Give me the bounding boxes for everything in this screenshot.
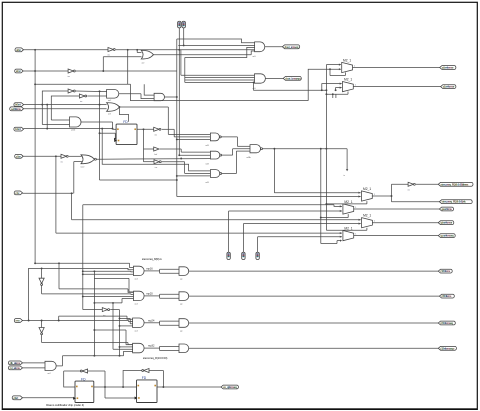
svg-text:r24rtkmseq: r24rtkmseq <box>440 321 453 325</box>
wire N1 in1 <box>168 133 210 135</box>
junction A2/x176 <box>176 96 178 98</box>
wire pin11 line <box>23 397 76 399</box>
svg-text:q0xrtkmse: q0xrtkmse <box>442 66 454 70</box>
top pin T1 <box>178 21 181 28</box>
svg-text:M2_1: M2_1 <box>363 214 371 218</box>
mux MA <box>343 204 354 214</box>
and-gate G1 <box>255 42 265 52</box>
output pin O4 <box>441 85 456 89</box>
label MC <box>344 227 352 231</box>
nand-gate N4 <box>250 145 262 153</box>
wire y57 line <box>185 47 255 57</box>
label R1 sub <box>135 278 138 280</box>
nand-gate N2 <box>210 151 221 159</box>
svg-text:mp24: mp24 <box>148 318 155 322</box>
junction y296/x82 <box>82 296 84 298</box>
wire FD2 Q <box>157 386 221 388</box>
feedback inverter FB1 <box>80 369 87 373</box>
wire G2 out <box>265 77 283 79</box>
wire y316 line <box>59 316 133 320</box>
junction x176/N3 <box>176 175 178 177</box>
junction y271/x82 <box>82 270 84 272</box>
wire x55 riser <box>55 156 57 233</box>
wire R1 split <box>144 269 179 273</box>
wire pin2 to inverter U3 <box>23 70 68 72</box>
wire x274 drop <box>273 149 275 193</box>
junction pin8/x58 <box>58 320 60 322</box>
wire N1 in3 <box>177 138 211 140</box>
wire x129 riser <box>129 278 134 292</box>
label M1 <box>343 58 351 62</box>
label N3 <box>206 182 209 184</box>
svg-text:qbxrtkmse: qbxrtkmse <box>440 221 452 225</box>
wire R4 out <box>189 347 439 349</box>
wire FDt C feed <box>100 133 117 140</box>
svg-text:q1xrtkmse: q1xrtkmse <box>443 85 455 89</box>
wire N1 out <box>221 137 250 146</box>
wire y263 line <box>35 263 133 267</box>
buffer gate R4b <box>179 344 189 353</box>
input pin P4 <box>10 107 24 111</box>
label R1b <box>180 278 182 280</box>
svg-text:buf: buf <box>155 154 158 156</box>
label R4 mp <box>148 344 155 348</box>
input pin P2 <box>15 69 24 73</box>
wire MT out <box>372 194 391 196</box>
wire y296 in3 <box>83 296 134 298</box>
junction bus/line84 <box>34 83 36 85</box>
svg-text:an4: an4 <box>135 303 138 305</box>
wire N2 out <box>222 149 250 155</box>
wire muxB in1 <box>72 219 361 221</box>
svg-text:FD: FD <box>123 120 128 124</box>
svg-text:Diseno codificador chip (coder: Diseno codificador chip (coder 4) <box>46 403 84 407</box>
svg-text:nd3: nd3 <box>206 182 209 184</box>
output pin O2 <box>283 76 301 80</box>
wire y325 branch <box>120 325 133 327</box>
junction MAsel/x320 <box>320 217 322 219</box>
output pin O13 <box>438 346 456 350</box>
svg-text:inv: inv <box>155 135 157 137</box>
wire R1 out <box>189 270 439 272</box>
wire y45 line <box>178 44 254 46</box>
label arrow net <box>344 174 346 177</box>
input pin P6 <box>15 154 24 158</box>
junction T2/y45 <box>183 44 185 46</box>
wire g2 in1 <box>181 74 255 76</box>
svg-text:pp: pp <box>180 303 182 305</box>
svg-text:FD: FD <box>142 376 147 380</box>
wire R2 out <box>189 295 440 297</box>
wire invBot feed <box>83 309 103 311</box>
and-gate AM <box>70 117 81 127</box>
junction U2 out branch <box>136 49 138 51</box>
mux M2 <box>343 82 354 92</box>
wire MB out <box>372 221 438 223</box>
svg-text:an2b: an2b <box>71 130 75 132</box>
junction x99/pin3 <box>99 104 101 106</box>
svg-text:an5: an5 <box>253 88 256 90</box>
and-gate R1 <box>134 266 145 275</box>
svg-text:an2: an2 <box>108 100 111 102</box>
svg-text:clk_akms: clk_akms <box>10 361 21 365</box>
svg-text:stercoreq_R(16:0:00): stercoreq_R(16:0:00) <box>143 356 168 360</box>
wire V2 riser <box>242 224 244 253</box>
wire MB sel <box>326 228 367 230</box>
label row1 head <box>142 257 163 261</box>
label R2 sub <box>135 303 138 305</box>
wire M2 out <box>353 84 440 86</box>
wire FD2 C feed <box>105 397 137 399</box>
wire FD1t Q out <box>137 128 154 130</box>
wire top pin T1 drop <box>178 28 180 156</box>
output pin O3 <box>440 66 456 70</box>
feedback inverter FB2 <box>142 369 149 373</box>
svg-text:mp32: mp32 <box>148 344 155 348</box>
wire y318 branch <box>120 318 133 323</box>
junction pin7/x71 <box>71 192 73 194</box>
wire G1 out <box>265 46 283 48</box>
input pin P11 <box>12 396 22 400</box>
junction N2in2 <box>178 154 180 156</box>
output pin O9 <box>438 234 455 238</box>
wire U2 out <box>116 49 255 51</box>
inverter U5 <box>79 94 86 103</box>
wire pin1 to inverter U2 <box>24 49 109 51</box>
junction y263/x35 <box>34 262 36 264</box>
inverter U6 <box>61 154 69 163</box>
inverter U4 <box>68 89 75 93</box>
mux MT <box>362 191 373 201</box>
wire V3 riser <box>257 237 259 253</box>
wire NOR out long <box>96 158 210 161</box>
or-gate ORB <box>107 103 120 112</box>
wire pin4 to ORB <box>24 108 107 110</box>
wire pin7 line <box>23 192 74 194</box>
svg-text:inv: inv <box>61 161 63 163</box>
junction invA tap <box>41 104 43 106</box>
junction x94/y302 <box>93 302 95 304</box>
label R3 sub <box>135 330 138 332</box>
svg-text:b0xrt: b0xrt <box>15 103 21 107</box>
input pin P10 <box>8 366 22 370</box>
inverter U8 <box>102 308 109 312</box>
svg-text:stercoreq_R(16:0:0)rtk: stercoreq_R(16:0:0)rtk <box>442 200 467 204</box>
junction y180/x176 <box>176 179 178 181</box>
svg-text:stercoreq_8(R)xx: stercoreq_8(R)xx <box>142 257 163 261</box>
svg-text:M2_1: M2_1 <box>343 58 351 62</box>
junction pin8/x28 <box>28 320 30 322</box>
nor-gate NOR1 <box>81 155 96 164</box>
wire pin3 to ORB <box>24 104 107 106</box>
svg-text:inv: inv <box>408 189 410 191</box>
wire pin8 up loop <box>29 268 42 320</box>
wire x71 riser <box>71 193 73 220</box>
inverter B3 <box>154 160 161 164</box>
label N2 <box>206 163 209 165</box>
label R2 mp <box>146 292 153 296</box>
wire riser x47 <box>46 105 48 129</box>
and-gate AB <box>45 361 56 370</box>
svg-text:an4: an4 <box>135 278 138 280</box>
junction y355/x94 <box>93 355 95 357</box>
wire D2 in <box>41 321 43 328</box>
label ORB <box>108 113 111 116</box>
junction y128 r1 <box>101 128 103 130</box>
svg-text:r20rtkms: r20rtkms <box>442 294 452 298</box>
label FD1t <box>123 120 128 124</box>
junction y69/x330 <box>329 68 331 70</box>
wire x163 riser <box>162 371 164 388</box>
wire top pin T2 drop <box>183 28 185 46</box>
wire mux M2 in2 <box>336 87 342 91</box>
label G2 <box>253 88 256 90</box>
output pin O14 <box>221 385 238 389</box>
wire muxB in2 <box>243 223 360 225</box>
output pin O11 <box>439 294 454 298</box>
junction Q1/x105 <box>104 386 106 388</box>
label AM <box>71 130 75 132</box>
svg-text:nor2: nor2 <box>81 165 85 168</box>
input pin P8 <box>14 319 22 323</box>
wire x326 long <box>325 90 327 230</box>
output pin O8 <box>438 221 454 225</box>
wire to buf2 <box>144 148 154 150</box>
svg-text:inv: inv <box>108 55 110 57</box>
wire R3 out <box>189 322 439 324</box>
wire U3 out <box>76 70 177 72</box>
wire U5 out to A1 <box>87 95 106 97</box>
inverter U7 <box>408 182 416 191</box>
input pin P7 <box>14 191 22 195</box>
label B2 <box>155 154 158 156</box>
label B3 <box>155 167 157 169</box>
wire invR out <box>416 183 438 185</box>
label N4 <box>247 157 251 159</box>
inverter down D1 <box>39 278 44 285</box>
wire y164 to N3 <box>102 129 210 171</box>
inverter U2 <box>108 48 116 57</box>
wire y271 in3 <box>83 270 134 273</box>
inverter U3 <box>68 69 76 78</box>
wire B3 to N3 <box>162 162 211 174</box>
svg-text:inv: inv <box>155 167 157 169</box>
caption bottom <box>46 403 84 407</box>
junction MTsel/x326 <box>325 203 327 205</box>
nand-gate N1 <box>210 133 221 141</box>
wire riser NOR in2 <box>74 162 82 194</box>
junction AM/y128 <box>112 128 114 130</box>
wire ORB to x168 down <box>167 107 169 134</box>
junction U3/OR1 riser <box>102 70 104 72</box>
svg-text:M2_1: M2_1 <box>344 200 352 204</box>
wire pin10 <box>23 367 46 369</box>
buffer B2 <box>154 147 159 151</box>
wire pin6 to inv <box>23 155 61 157</box>
svg-text:an2: an2 <box>48 373 51 375</box>
label R2b <box>180 303 182 305</box>
wire x59 riser <box>59 263 134 292</box>
wire D1 out <box>42 285 134 294</box>
wire y268 line <box>42 268 134 269</box>
wire U8 out <box>110 310 119 356</box>
label FD1 <box>81 377 86 381</box>
wire AB out <box>56 356 123 366</box>
junction y90/x335 <box>335 89 337 91</box>
junction x94/y330 <box>93 329 95 331</box>
wire x176 long vertical <box>176 39 178 197</box>
flip-flop FD1t box <box>114 124 137 145</box>
wire N3 in3 <box>177 175 211 177</box>
wire muxA in2 <box>229 210 342 212</box>
label MA <box>344 200 352 204</box>
output pin O6 long <box>439 200 472 204</box>
svg-text:inv: inv <box>68 76 70 78</box>
wire R4 split <box>144 346 179 350</box>
junction pin1/bus <box>34 49 36 51</box>
and-gate A2 <box>154 93 164 100</box>
label R1 mp <box>146 267 153 271</box>
svg-text:M2_1: M2_1 <box>344 227 352 231</box>
wire g2 in2 <box>185 77 255 79</box>
junction x47/pin5 <box>46 128 48 130</box>
input pin P5 <box>14 127 24 131</box>
svg-text:M2_1: M2_1 <box>344 78 352 82</box>
wire M1 out <box>353 65 440 67</box>
and-gate R3 <box>133 318 145 328</box>
svg-text:a1xr: a1xr <box>16 69 21 73</box>
wire A2 out <box>165 96 177 98</box>
label FD2 <box>142 376 147 380</box>
junction N4/x320 <box>320 148 322 150</box>
wire R3 split <box>144 321 179 325</box>
svg-text:nd3b: nd3b <box>247 157 251 159</box>
wire x330 sel <box>330 69 345 98</box>
wire long y84 <box>35 83 130 85</box>
wire AM out <box>81 122 116 129</box>
label AB <box>48 373 51 375</box>
junction g2d <box>253 81 255 83</box>
mux MB <box>362 218 373 228</box>
wire x130 riser <box>130 84 132 101</box>
wire D1 in <box>41 268 43 278</box>
buffer gate R1b <box>179 267 189 276</box>
junction x99/y133 <box>99 132 101 134</box>
flip-flop FD2 box <box>135 380 157 403</box>
wire y204 long <box>83 205 342 208</box>
label MB <box>363 214 371 218</box>
svg-text:a0xr: a0xr <box>16 48 21 52</box>
wire and-mid in1 <box>51 119 69 121</box>
wire NOR branch down <box>100 179 177 181</box>
wire ORB out <box>120 106 169 108</box>
buffer gate R2b <box>179 292 189 301</box>
junction pin6/x56 <box>55 155 57 157</box>
wire x127 riser <box>127 50 129 85</box>
wire y274 in4 <box>83 273 134 275</box>
wire g2 in4 <box>185 81 255 83</box>
label U8 <box>103 315 105 317</box>
wire y69 from corner <box>308 68 341 101</box>
input pin P1 <box>15 48 24 52</box>
svg-text:pp: pp <box>180 330 182 332</box>
svg-text:inv: inv <box>80 101 82 103</box>
label R3b <box>180 330 182 332</box>
junction y90/x321 <box>321 89 323 91</box>
svg-text:rst_akms: rst_akms <box>10 366 21 370</box>
wire MC sel + x320 drop <box>321 149 342 244</box>
label OR1 <box>142 61 145 64</box>
wire muxC in1 <box>56 232 342 234</box>
svg-text:r16rtkms: r16rtkms <box>440 269 450 273</box>
wire y278 line <box>94 277 129 279</box>
wire riser invB <box>51 96 79 120</box>
wire pin8 line <box>23 321 133 322</box>
label R3 mp <box>148 318 155 322</box>
label A1 <box>108 100 111 102</box>
and-gate G2 <box>255 74 266 83</box>
wire riser invA <box>42 91 68 125</box>
wire FB1 in <box>88 370 105 372</box>
svg-text:inv: inv <box>103 315 105 317</box>
svg-text:dout_bmseqo: dout_bmseqo <box>285 76 301 80</box>
wire OR1 out to G1 <box>153 51 254 55</box>
junction x127/U2out <box>127 49 129 51</box>
buffer gate R3b <box>179 319 189 328</box>
junction y90/x326 <box>325 89 327 91</box>
wire FB2 in <box>149 370 163 372</box>
wire y346 branch <box>120 346 133 348</box>
wire B2 to N2 <box>160 149 211 152</box>
svg-text:an4: an4 <box>135 330 138 332</box>
junction y274/x82 <box>82 273 84 275</box>
junction bus/y71 <box>34 70 36 72</box>
wire muxT in2 line <box>177 195 361 197</box>
and-gate R4 <box>133 343 145 353</box>
junction pin8/x41 <box>41 320 43 322</box>
wire g2 sel drop <box>254 82 327 90</box>
junction y355/x119 <box>119 355 121 357</box>
svg-text:nd3: nd3 <box>206 163 209 165</box>
output pin O1 <box>282 45 299 49</box>
wire dangling arrow <box>346 149 348 172</box>
svg-text:b1xrt: b1xrt <box>15 127 21 131</box>
input pin P9 <box>8 361 22 365</box>
junction MT fan <box>391 195 393 197</box>
junction x119/y346 <box>119 346 121 348</box>
input pin P3 <box>14 103 24 107</box>
wire MT sel <box>326 201 367 204</box>
wire R2 split <box>144 294 179 298</box>
wire muxC in2 <box>258 236 342 238</box>
label B1 <box>155 135 157 137</box>
wire Q fan down <box>143 129 145 161</box>
wire MA out <box>354 207 440 209</box>
svg-text:or3: or3 <box>108 113 111 116</box>
wire to buf3 <box>144 161 155 163</box>
wire FD1 D <box>64 371 75 387</box>
wire MC out <box>354 233 439 235</box>
wire A1 out <box>119 94 154 99</box>
wire x113 riser <box>113 303 133 349</box>
junction ORB out <box>118 106 120 108</box>
output pin O5 long <box>438 182 473 186</box>
mux M1 <box>342 62 353 72</box>
wire B1 to N1 <box>162 129 211 137</box>
and-gate A1 <box>107 90 119 99</box>
junction N4/x326 <box>325 148 327 150</box>
wire y351 in4 <box>124 352 133 356</box>
